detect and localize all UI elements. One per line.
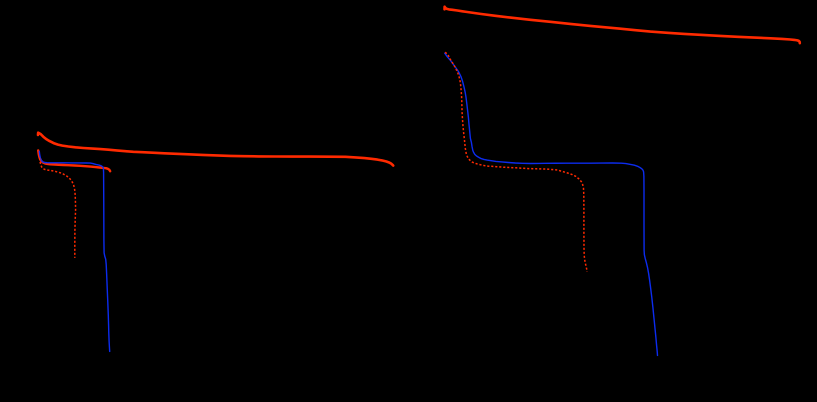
left panel: blue solid curve with vertical drop [39, 151, 109, 351]
left panel: red dotted curve with vertical drop [40, 158, 76, 258]
left panel: long red solid curve (top) [38, 133, 393, 166]
left panel: short red solid curve [38, 150, 110, 171]
right panel: blue solid curve [445, 53, 658, 355]
right panel: long red solid curve (top) [445, 7, 800, 44]
right panel: red dotted curve [445, 52, 587, 272]
